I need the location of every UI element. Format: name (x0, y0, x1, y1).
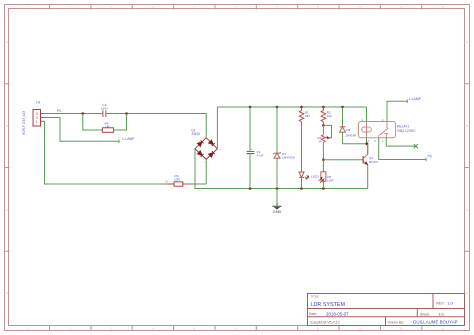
resistor R1 (299, 107, 310, 126)
svg-text:P0: P0 (428, 155, 432, 159)
svg-text:1/1: 1/1 (439, 312, 445, 317)
svg-text:G5Q-12VDC: G5Q-12VDC (397, 129, 416, 133)
junction C2 right (125, 112, 128, 115)
svg-text:HDR-F 2.54_1x3: HDR-F 2.54_1x3 (22, 111, 26, 135)
junction LDR bottom (322, 187, 325, 190)
svg-text:334J: 334J (101, 107, 108, 111)
wire base (323, 159, 363, 161)
zener diode D3 (273, 107, 296, 189)
svg-text:Drawn By:: Drawn By: (388, 321, 405, 325)
diode D6 (340, 107, 357, 144)
potentiometer R3 (318, 125, 332, 159)
svg-text:EasyEDA V5.4.12: EasyEDA V5.4.12 (311, 320, 340, 324)
net label L.LAMP right (407, 97, 421, 103)
svg-text:1: 1 (36, 120, 38, 124)
wire pin2 to L.LAMP (45, 118, 120, 142)
wire D6 to coil junction (343, 144, 368, 154)
ground (272, 189, 281, 214)
svg-text:1N4742A: 1N4742A (282, 155, 296, 159)
LED LED1 (299, 126, 319, 189)
node P0 label (57, 109, 61, 113)
svg-text:LDR: LDR (327, 178, 334, 182)
title block text LDR SYSTEM (311, 302, 346, 308)
wire relay common to L.LAMP (387, 101, 407, 121)
svg-text:BC337: BC337 (369, 160, 379, 164)
wire C2 to bridge top (106, 114, 206, 138)
wire bridge left to gnd rail (195, 149, 368, 189)
svg-text:D: D (6, 292, 8, 295)
resistor R4 (102, 121, 113, 132)
junction R1 top (300, 106, 303, 109)
resistor R6 (166, 174, 191, 186)
title block text REV (436, 301, 453, 306)
label HDR-F 2.54_1x3 (22, 111, 26, 135)
junction C2 left (82, 112, 85, 115)
svg-text:Date:: Date: (309, 312, 318, 316)
wire emitter to gnd rail (367, 165, 369, 189)
svg-text:1M: 1M (105, 124, 110, 128)
svg-text:1N4148: 1N4148 (345, 133, 356, 137)
svg-text:10R: 10R (174, 178, 180, 182)
resistor R2 (321, 107, 332, 125)
wire bridge right to plus rail (217, 107, 366, 149)
junction D6 top (341, 106, 344, 109)
svg-text:N: N (165, 180, 167, 184)
junction coil collector (366, 142, 369, 145)
svg-text:P0: P0 (57, 109, 61, 113)
title block text Date (309, 311, 349, 316)
junction D3 top (276, 106, 279, 109)
wire coil plus (366, 107, 368, 122)
svg-text:LDR SYSTEM: LDR SYSTEM (311, 302, 346, 308)
svg-text:330: 330 (305, 114, 310, 118)
svg-text:L.LAMP: L.LAMP (123, 137, 136, 141)
title block text Drawn By (388, 320, 458, 325)
svg-text:10k: 10k (327, 114, 332, 118)
svg-text:Sheet:: Sheet: (420, 312, 430, 316)
junction R2-R3 (322, 124, 325, 127)
wire pin1 down to N (45, 121, 167, 184)
title block text TITLE: (311, 295, 320, 299)
wire pin3 to C2 (45, 113, 103, 115)
transistor Q1 (363, 154, 379, 166)
svg-text:C: C (466, 209, 468, 212)
label H1 (36, 101, 40, 105)
junction R2 top (322, 106, 325, 109)
svg-text:C: C (6, 209, 8, 212)
junction GND tap (276, 187, 279, 190)
svg-text:GUILLAUME BOUYAP: GUILLAUME BOUYAP (413, 320, 458, 325)
node N label (165, 180, 167, 184)
connector H1 (33, 110, 45, 127)
svg-text:GND: GND (273, 209, 282, 214)
bridge rectifier D1 (192, 129, 222, 165)
svg-text:H1: H1 (36, 101, 40, 105)
svg-text:TITLE:: TITLE: (311, 295, 320, 299)
net label P0 right (426, 155, 432, 162)
wire relay NC to P0 (379, 138, 426, 160)
svg-text:RELAY1: RELAY1 (397, 125, 410, 129)
svg-text:REV:: REV: (436, 302, 444, 306)
wire collector (367, 144, 369, 155)
photoresistor R5 LDR (318, 160, 334, 189)
wire coil minus (366, 138, 368, 144)
title block (308, 294, 465, 326)
junction LED bottom (300, 187, 303, 190)
wire R4 branch (83, 114, 127, 131)
svg-text:1.0: 1.0 (447, 301, 453, 306)
capacitor C1 (247, 107, 264, 189)
no-connect flag (414, 144, 418, 148)
capacitor C2 (101, 103, 108, 117)
wire relay NO to no-connect (386, 138, 416, 146)
wire R6 to bridge bottom (191, 159, 206, 184)
junction C1 bottom (249, 187, 252, 190)
svg-text:-: - (193, 148, 194, 151)
svg-text:47uF: 47uF (257, 153, 264, 157)
title block text EasyEDA (311, 320, 340, 324)
junction Q1 base (322, 158, 325, 161)
svg-text:ZW10: ZW10 (192, 132, 201, 136)
svg-text:D6: D6 (346, 128, 350, 132)
svg-text:+: + (251, 148, 253, 152)
svg-text:LED1: LED1 (311, 174, 319, 178)
svg-text:L.LAMP: L.LAMP (409, 97, 422, 101)
title block text Sheet (420, 312, 445, 317)
relay RELAY1 (359, 120, 417, 143)
svg-text:D: D (466, 292, 468, 295)
net label L.LAMP left (119, 137, 135, 143)
svg-text:1k: 1k (318, 140, 322, 144)
svg-text:2018-05-07: 2018-05-07 (326, 311, 349, 316)
junction C1 top (249, 106, 252, 109)
